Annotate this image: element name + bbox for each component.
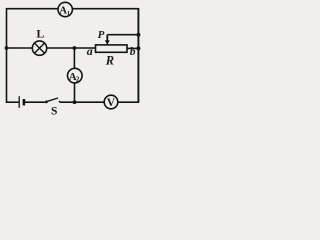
ammeter A2: [68, 68, 83, 83]
wire bottom: voltmeter to corner: [118, 101, 139, 103]
svg-text:2: 2: [76, 76, 80, 84]
svg-text:a: a: [87, 44, 93, 58]
rheostat slider arrow: [105, 35, 110, 46]
node: lamp branch on left rail: [5, 46, 9, 50]
svg-text:L: L: [36, 27, 44, 41]
voltmeter V: [104, 95, 118, 109]
switch S: [45, 98, 60, 103]
wire A2 branch lower: [74, 83, 76, 102]
lamp L: [32, 41, 46, 55]
wire bottom: battery to switch: [25, 101, 45, 103]
svg-text:b: b: [130, 46, 136, 58]
wire rheostat terminal b to right rail: [127, 47, 138, 49]
resistor R (rheostat box): [96, 45, 128, 52]
wire top right segment: [72, 8, 139, 10]
wire right rail: [137, 8, 139, 103]
wire bottom: switch to voltmeter: [60, 101, 105, 103]
wire lamp row: lamp to rheostat terminal a: [47, 47, 96, 49]
node: slider wire on right rail: [136, 33, 140, 37]
svg-text:1: 1: [67, 10, 70, 17]
wire lamp row: rail to lamp: [7, 47, 33, 49]
svg-text:S: S: [51, 105, 57, 117]
svg-text:R: R: [105, 53, 114, 67]
node: A2 branch top junction: [73, 46, 77, 50]
node: A2 branch bottom junction: [73, 100, 77, 104]
node: terminal b wire on right rail: [136, 46, 140, 50]
wire A2 branch upper: [73, 48, 75, 68]
wire left rail: [6, 8, 8, 103]
wire bottom: corner to battery: [6, 101, 19, 103]
svg-text:P: P: [98, 29, 105, 41]
wire top left segment: [6, 8, 58, 10]
svg-text:V: V: [107, 97, 116, 109]
wire slider P to right rail: [107, 34, 138, 36]
battery cell: [19, 96, 24, 108]
ammeter A1: [58, 2, 72, 17]
